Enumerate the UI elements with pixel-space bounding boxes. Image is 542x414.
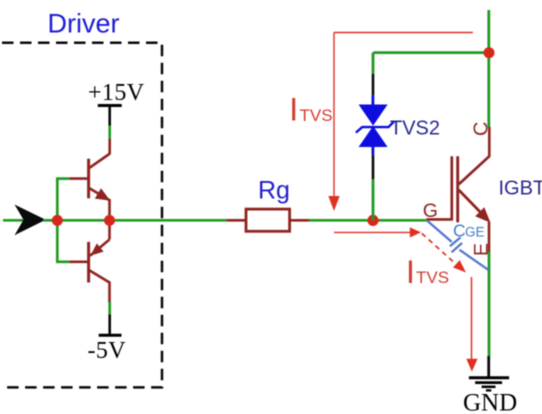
emitter wire bbox=[487, 222, 490, 378]
label E (rotated) bbox=[471, 243, 493, 256]
svg-text:TVS: TVS bbox=[416, 268, 449, 287]
ITVS dashed arrow (through CGE) bbox=[422, 233, 466, 272]
transistor Q2 (PNP, bottom) bbox=[89, 220, 110, 303]
IGBT Q3 symbol bbox=[452, 156, 491, 223]
collector vertical wire bbox=[487, 10, 490, 157]
label CGE bbox=[453, 220, 485, 240]
base column wire bbox=[56, 179, 59, 262]
label IGBT bbox=[499, 178, 542, 200]
transistor Q1 (NPN, top) bbox=[89, 154, 111, 222]
svg-text:C: C bbox=[471, 122, 493, 136]
label GND bbox=[463, 389, 517, 414]
emitter current arrow (red, to GND) bbox=[466, 277, 477, 372]
capacitor CGE (dashed diagonal) bbox=[427, 221, 488, 270]
label TVS2 bbox=[390, 118, 440, 140]
wire Q2 base bbox=[56, 260, 89, 263]
-5V supply symbol bbox=[88, 302, 127, 364]
junction node (base column) bbox=[52, 215, 63, 226]
input arrow bbox=[15, 205, 46, 236]
junction node (driver output) bbox=[104, 215, 115, 226]
resistor Rg bbox=[246, 209, 290, 231]
TVS diode TVS2 bbox=[356, 95, 394, 154]
svg-text:-5V: -5V bbox=[88, 338, 127, 364]
label Driver bbox=[48, 8, 120, 38]
svg-text:IGBT: IGBT bbox=[499, 178, 542, 200]
driver dashed box bbox=[2, 43, 162, 388]
svg-text:GE: GE bbox=[465, 224, 485, 239]
svg-text:TVS: TVS bbox=[300, 106, 333, 125]
svg-text:I: I bbox=[289, 91, 298, 127]
wire +15V to Q1 collector bbox=[108, 106, 111, 155]
ITVS loop line (top + left, red) bbox=[328, 33, 473, 212]
svg-text:I: I bbox=[406, 254, 415, 290]
junction node (TVS bottom / gate) bbox=[367, 215, 378, 226]
label ITVS (right) bbox=[406, 254, 449, 290]
+15V supply symbol bbox=[88, 80, 145, 106]
ground bbox=[469, 378, 509, 391]
junction node (collector bus) bbox=[484, 47, 495, 58]
middle rail wire (gate node) bbox=[43, 219, 427, 222]
label Rg bbox=[258, 177, 290, 205]
svg-text:Rg: Rg bbox=[258, 177, 290, 205]
svg-text:+15V: +15V bbox=[88, 80, 145, 106]
wire Q1 base bbox=[56, 177, 89, 180]
TVS branch wire (bottom) bbox=[372, 155, 375, 221]
TVS branch wire (top) bbox=[372, 53, 375, 96]
svg-text:TVS2: TVS2 bbox=[390, 118, 440, 140]
gate current arrow (horizontal, red) bbox=[334, 227, 421, 237]
svg-text:G: G bbox=[423, 200, 438, 222]
label G bbox=[423, 200, 438, 222]
input wire bbox=[3, 219, 30, 222]
label ITVS (left) bbox=[289, 91, 332, 127]
svg-text:Driver: Driver bbox=[48, 8, 120, 38]
gate lead wire bbox=[427, 218, 452, 221]
label C (rotated) bbox=[471, 122, 493, 136]
top rail wire bbox=[373, 51, 489, 54]
svg-text:GND: GND bbox=[463, 389, 517, 414]
svg-text:C: C bbox=[453, 220, 466, 240]
